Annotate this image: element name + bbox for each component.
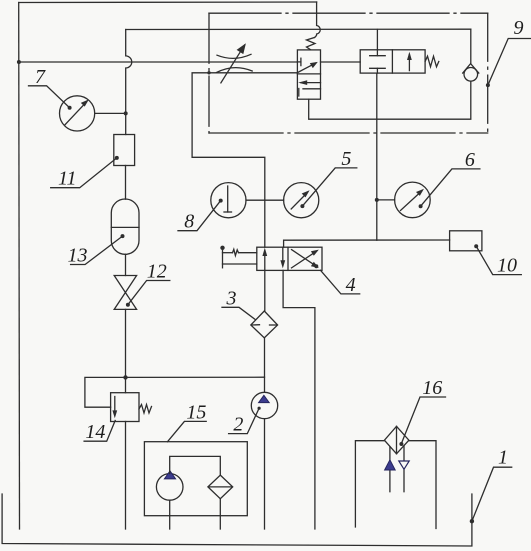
node: junction gauge7 line <box>124 111 128 115</box>
valve 4 pilot actuator (left) <box>222 247 224 268</box>
valve 4 left box: down arrow <box>282 247 284 265</box>
svg-text:9: 9 <box>514 17 524 39</box>
svg-text:7: 7 <box>35 66 46 88</box>
component 10 (rectangle) <box>450 231 482 251</box>
valve 4 body (two boxes) <box>257 247 322 270</box>
relief valve 14 down arrow <box>114 397 116 416</box>
valve 4 left box: up arrow <box>264 251 266 271</box>
wire: line B left corner down, hop over main line, down to node <box>126 30 132 135</box>
svg-text:14: 14 <box>85 421 105 443</box>
svg-text:13: 13 <box>68 245 88 267</box>
wire: pilot line down from top border with hop over line B <box>315 2 321 38</box>
wire: valve 4 bottom left to filter 3 <box>264 270 266 311</box>
svg-text:12: 12 <box>147 261 167 283</box>
svg-text:15: 15 <box>186 401 206 423</box>
wire: top border line <box>19 1 317 4</box>
wire: U2 bottom stem long vertical to gauge 6 row and line to 10 <box>376 73 378 240</box>
wire: pump to filter link inside 15 <box>170 456 221 475</box>
accumulator 13 (capsule) <box>111 199 139 254</box>
wire: left border line <box>18 3 21 530</box>
wire: 11 to accumulator <box>125 166 127 200</box>
enclosure 9 dash-dot boundary <box>209 12 488 14</box>
valve U1 bottom box: left flow arrow <box>301 82 321 84</box>
breather 16 air-in line with filled triangle <box>389 447 391 492</box>
pump (inside 15) <box>156 474 183 501</box>
wire: line B upper branch (to check valve) <box>126 28 471 30</box>
wire: junction into valve 14 top <box>125 377 127 392</box>
wire: valve 4 tank return <box>283 270 315 529</box>
relief valve 14 spring (right) <box>139 405 152 414</box>
pump unit 15 enclosure box <box>144 442 247 516</box>
spring on valve U1 top <box>307 38 316 50</box>
node: junction left border / main line <box>17 60 21 64</box>
gauge 6 (pressure gauge) <box>395 182 431 218</box>
valve U1 (3/2 valve) body <box>297 50 320 99</box>
svg-text:16: 16 <box>422 377 442 399</box>
wire: U2 top stem to line B <box>376 29 378 49</box>
throttle valve adjust arrow <box>221 45 245 83</box>
valve U2 right box: up flow arrow <box>408 55 410 71</box>
svg-text:10: 10 <box>497 255 517 277</box>
valve U2 left box: closed ports (two T bars) <box>370 55 386 57</box>
wire: loop to relief valve 14 left port <box>85 377 126 407</box>
gauge 7 (pressure gauge) <box>60 96 95 131</box>
valve U2 (2/2 valve) body <box>360 50 425 73</box>
svg-text:6: 6 <box>465 149 475 171</box>
svg-text:8: 8 <box>184 211 194 233</box>
wire: suction lines into tank <box>169 500 171 529</box>
valve U1 top box: diagonal flow arrow <box>298 63 316 72</box>
valve U2 spring (right) <box>425 56 439 67</box>
wire: valve 4 top right port to component 10 <box>284 240 450 247</box>
svg-text:5: 5 <box>341 148 351 170</box>
svg-text:1: 1 <box>498 447 508 469</box>
wire: pump 2 suction to tank <box>264 419 266 529</box>
svg-text:11: 11 <box>58 168 77 190</box>
breather 16 (diamond) <box>384 426 409 454</box>
wire: main pressure line <box>19 61 298 63</box>
wire: filter 3 to pump 2 <box>264 338 266 392</box>
wire: U1 bottom port to check valve loop <box>309 81 471 119</box>
gauge 5 (pressure gauge) <box>284 183 319 218</box>
wire: U1 right port to U2 <box>321 61 361 63</box>
svg-text:4: 4 <box>346 274 356 296</box>
wire: pump 2 output line to junction <box>126 376 265 378</box>
wire: accumulator to valve 12 <box>125 254 127 275</box>
wire: gauge row line 8 to 5 <box>246 199 284 201</box>
filter 3 (diamond) <box>251 311 278 338</box>
filter (inside 15, diamond) <box>208 475 233 499</box>
wire: check valve top stem <box>470 29 472 63</box>
gauge 8 (thermometer) <box>211 183 246 218</box>
breather 16 air-out line with open triangle <box>403 446 405 492</box>
valve U1 bottom box: blocked lower port <box>303 88 321 90</box>
svg-text:3: 3 <box>226 288 237 310</box>
shutoff valve 12 (bowtie) <box>114 276 136 310</box>
valve 4 right box: crossed arrows <box>292 251 317 268</box>
check valve (in enclosure 9) <box>464 68 478 82</box>
tank 1 (main reservoir outline) <box>2 494 472 546</box>
wire: gauge 7 to vertical line <box>95 112 126 114</box>
small reservoir under breather 16 <box>355 441 384 527</box>
wire: second line (lower) with corner at left <box>192 73 297 247</box>
svg-text:2: 2 <box>233 414 243 436</box>
node: junction gauge 6 <box>375 198 379 202</box>
wire: valve 12 down to junction <box>125 309 127 377</box>
component 11 (rectangle) <box>114 135 135 166</box>
valve U1 top box: blocked port T <box>297 61 301 63</box>
pump 2 (circle with triangle) <box>251 392 277 418</box>
relief valve 14 body <box>111 393 139 422</box>
node: junction above relief valve 14 <box>123 375 127 379</box>
throttle valve (flow control) arcs <box>217 54 251 58</box>
wire: valve 14 return to tank <box>125 422 127 530</box>
node: dash-dot dot on second line <box>207 71 210 74</box>
wire: gauge 6 connector <box>377 199 395 201</box>
